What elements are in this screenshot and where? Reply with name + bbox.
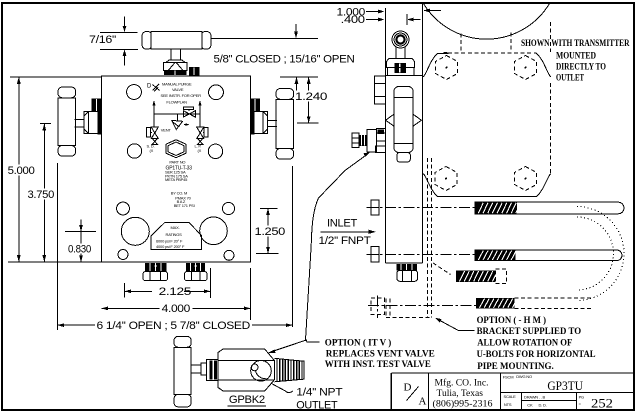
bottom threads black band	[396, 264, 417, 271]
centerline rotated U-bolt	[368, 305, 514, 307]
svg-text:META PBP45: META PBP45	[165, 177, 188, 182]
bracket foot dashed	[386, 299, 432, 318]
GPBK2 stem	[191, 365, 201, 373]
svg-text:FSCM: FSCM	[503, 375, 514, 380]
upper-left boss (outlet gland side view)	[375, 76, 386, 104]
ITV valve middle gland	[367, 129, 376, 152]
dim 1.240 block-top extension	[280, 76, 318, 78]
U-bolt rod 1	[475, 202, 624, 214]
schematic right riser	[199, 104, 201, 128]
down arrow on 5/8 line	[295, 24, 297, 32]
svg-text:VENT: VENT	[161, 128, 172, 133]
leader 1/4 NPT	[272, 384, 293, 393]
vent packing black nut	[394, 63, 406, 73]
flange bolt hexagon BL	[435, 167, 457, 191]
svg-text:RATINGS: RATINGS	[166, 232, 183, 237]
top valve tag (black)	[189, 67, 200, 75]
dim 1.240 line	[308, 77, 310, 123]
svg-text:REPLACES VENT VALVE: REPLACES VENT VALVE	[326, 349, 435, 359]
face bolt circles	[127, 85, 142, 100]
cell approvals	[522, 400, 577, 402]
vent handle ring (T-bar end view)	[392, 31, 409, 48]
svg-text:5.000: 5.000	[8, 165, 35, 177]
svg-text:SHOWN WITH TRANSMITTER: SHOWN WITH TRANSMITTER	[521, 39, 630, 49]
side body top and bottom edges	[385, 76, 422, 263]
dim .400 tick and arrow	[407, 14, 421, 25]
inner handle (side handle edge-on)	[394, 87, 413, 153]
svg-text:BRACKET SUPPLIED TO: BRACKET SUPPLIED TO	[477, 327, 581, 337]
GPBK2 handle	[174, 336, 191, 407]
svg-text:1/2'' FNPT: 1/2'' FNPT	[319, 235, 372, 247]
rotation dotted arc inner	[577, 217, 614, 290]
dim 1.000 right arrow at face	[428, 10, 441, 12]
bottom right outlet fitting threads	[186, 263, 205, 272]
dim line 5/8 closed	[212, 37, 319, 39]
left handle	[58, 87, 76, 156]
main valve (bowtie)	[183, 111, 195, 117]
flange outline scalloped	[423, 53, 448, 77]
dim 6 1/4 extension lines	[58, 163, 293, 330]
pivot cross vertical	[377, 296, 379, 319]
dim 4.000 line	[102, 307, 251, 309]
svg-text:1/4'' NPT: 1/4'' NPT	[296, 386, 343, 398]
hex plug double hexagon	[166, 140, 186, 158]
GPBK2 gland	[201, 363, 207, 375]
svg-text:2.125: 2.125	[159, 286, 192, 298]
svg-text:VALVE: VALVE	[172, 87, 184, 92]
top valve locknut black band	[164, 71, 186, 76]
ITV step below	[376, 146, 386, 152]
side body right face line full	[422, 3, 424, 263]
ITV valve threads black	[359, 135, 367, 146]
svg-text:BET 171 PSI: BET 171 PSI	[174, 203, 195, 208]
svg-text:PIPE MOUNTING.: PIPE MOUNTING.	[477, 362, 554, 372]
svg-text:Tulia, Texas: Tulia, Texas	[437, 389, 484, 399]
U-bolt rod 2	[475, 250, 622, 261]
top extension line	[10, 76, 102, 78]
dim 0.830 line	[80, 220, 82, 263]
svg-text:6000 psi F 20° F: 6000 psi F 20° F	[156, 239, 183, 244]
right branch valve handle	[204, 128, 208, 138]
bracket block dashed end	[495, 269, 506, 284]
svg-text:GPBK2: GPBK2	[229, 394, 265, 406]
vent base plate	[388, 68, 415, 76]
top valve stem	[171, 49, 181, 60]
dim 7/16 extension lines	[100, 32, 138, 49]
inlet tab upper	[371, 200, 379, 215]
flange bolt hexagon TR	[515, 56, 537, 80]
right valve tag (black)	[250, 99, 260, 112]
dim 3.750 line	[43, 124, 45, 263]
left valve tag (black)	[92, 99, 102, 112]
dim 4.000 extension line right	[250, 268, 252, 320]
svg-text:D: D	[404, 382, 412, 394]
svg-text:PG: PG	[579, 394, 584, 399]
bottom extension line	[8, 261, 102, 263]
right bonnet black strip	[251, 111, 255, 135]
svg-text:0.830: 0.830	[68, 243, 91, 255]
ITV valve end cap hex	[352, 133, 359, 147]
svg-text:U-BOLTS FOR HORIZONTAL: U-BOLTS FOR HORIZONTAL	[477, 350, 596, 360]
svg-text:PART NO: PART NO	[169, 160, 185, 165]
svg-text:5/8'' CLOSED ; 15/16'' OPEN: 5/8'' CLOSED ; 15/16'' OPEN	[214, 53, 355, 65]
flange bolt hexagon BR	[515, 167, 537, 191]
svg-text:FLOWPLAN: FLOWPLAN	[166, 100, 187, 105]
rotated rod dashed outline	[515, 298, 592, 308]
vent packing gland	[387, 58, 415, 67]
svg-text:ALLOW ROTATION OF: ALLOW ROTATION OF	[477, 339, 572, 349]
flange right dashed edge	[550, 22, 552, 174]
flange top edge black dash	[444, 52, 448, 54]
svg-text:4000 psi F 200° F: 4000 psi F 200° F	[156, 244, 185, 249]
svg-text:D: D	[147, 84, 152, 90]
svg-text:NTS: NTS	[504, 402, 512, 407]
flange bolt hexagon TL	[436, 56, 458, 80]
bottom right outlet nut	[185, 272, 208, 281]
dim 6 1/4 line segments	[58, 324, 293, 326]
transmitter neck dashed	[461, 33, 511, 54]
main valve handle	[183, 107, 193, 110]
rotated rod hatched	[476, 298, 515, 308]
right handle	[276, 89, 294, 160]
lower stem piece	[397, 153, 411, 163]
purge triangle	[172, 120, 183, 129]
svg-text:DWG NO: DWG NO	[516, 374, 532, 379]
svg-text:WITH INST. TEST VALVE: WITH INST. TEST VALVE	[325, 360, 431, 370]
centerline inlet lower	[367, 254, 621, 256]
schematic branch to purge	[177, 114, 179, 121]
right section divider	[500, 392, 634, 394]
right valve stem	[268, 121, 278, 127]
bottom left outlet fitting threads	[145, 263, 167, 272]
rotation dotted arc outer	[577, 207, 624, 301]
manifold block body	[102, 76, 251, 262]
svg-text:DRAWN . . B: DRAWN . . B	[524, 394, 546, 399]
dim 7/16 arrows	[124, 16, 126, 65]
svg-text:GP3TU: GP3TU	[547, 378, 583, 393]
ratings tag trapezoid	[151, 222, 202, 249]
bottom hex nut	[397, 270, 418, 281]
svg-text:1.240: 1.240	[295, 91, 327, 103]
svg-text:OPTION ( IT V ): OPTION ( IT V )	[325, 338, 392, 349]
left bonnet black strip	[97, 111, 101, 135]
transmitter housing arc	[423, 3, 550, 39]
flange top dashed edge	[448, 52, 537, 54]
dim 3.750 tick	[40, 123, 51, 125]
GPBK2 NPT threads	[274, 358, 303, 382]
bottom row dividers	[522, 393, 577, 411]
GPBK2 body	[218, 349, 274, 391]
svg-text:6 1/4'' OPEN ; 5 7/8'' CLOSED: 6 1/4'' OPEN ; 5 7/8'' CLOSED	[97, 320, 251, 332]
svg-text:OPTION ( - H M ): OPTION ( - H M )	[477, 315, 546, 326]
svg-text:OUTLET: OUTLET	[556, 74, 584, 84]
left branch valve (vertical bowtie)	[151, 127, 158, 138]
right drain valve small	[198, 138, 203, 144]
top valve packing nut	[164, 60, 188, 71]
leader ITV polyline	[306, 155, 368, 342]
dim 2.125 extension lines	[125, 268, 211, 298]
rod 2 threads hatched	[475, 250, 516, 261]
dim 0.830 tick	[65, 230, 96, 232]
centerline inlet upper	[367, 206, 621, 208]
svg-text:INLET: INLET	[327, 218, 358, 230]
bracket plate dashed verticals	[427, 158, 431, 318]
schematic main line	[154, 113, 200, 115]
svg-text:A: A	[419, 396, 427, 408]
big port circles	[121, 217, 149, 245]
svg-text:MANUAL PURGE: MANUAL PURGE	[162, 82, 192, 87]
top T-handle bar	[142, 32, 211, 50]
svg-text:3.750: 3.750	[28, 189, 55, 201]
title block outline	[391, 373, 634, 410]
schematic left riser	[153, 104, 155, 128]
dim 1.240 short arrow line	[296, 77, 298, 92]
svg-text:(806)995-2316: (806)995-2316	[433, 399, 493, 410]
diagonal dashed link	[433, 263, 451, 275]
ITV valve plate	[376, 129, 385, 147]
svg-text:(X: (X	[198, 148, 202, 153]
pivot dashed square	[371, 298, 384, 314]
GPBK2 port circle	[251, 361, 272, 382]
svg-text:OUTLET: OUTLET	[296, 400, 338, 412]
left valve stem	[75, 119, 85, 127]
tiny bottom circles	[118, 250, 128, 260]
ITV valve black top bits	[378, 129, 384, 134]
left valve bonnet	[84, 112, 101, 134]
svg-text:SCALE: SCALE	[504, 394, 517, 399]
inlet tab lower	[371, 247, 379, 263]
bracket block hatched (floating)	[456, 271, 495, 283]
svg-text:(X: (X	[150, 148, 154, 153]
svg-text:7/16'': 7/16''	[89, 34, 116, 46]
dim 5.000 line	[18, 77, 20, 262]
svg-text:Mfg. CO. Inc.: Mfg. CO. Inc.	[435, 378, 489, 389]
bracket leader	[439, 320, 475, 331]
right branch valve (vertical bowtie)	[197, 127, 204, 138]
svg-text:D. D.: D. D.	[539, 403, 547, 408]
svg-text:252: 252	[591, 396, 613, 411]
handle diamond arrows	[386, 114, 422, 126]
leader OPTION to GPBK2	[272, 340, 307, 352]
INLET arrow	[321, 231, 372, 233]
vent valve stem	[396, 47, 405, 59]
left branch valve handle	[147, 128, 151, 138]
svg-text:SEE INSTR. FOR OPER: SEE INSTR. FOR OPER	[161, 93, 202, 98]
rod 1 threads hatched	[475, 202, 517, 214]
lower small circles	[117, 202, 130, 215]
svg-text:DIRECTLY TO: DIRECTLY TO	[556, 63, 606, 73]
svg-text:MAX.: MAX.	[171, 225, 180, 230]
dim 2.125 line	[125, 290, 211, 292]
svg-text:.400: .400	[341, 14, 365, 26]
bottom left outlet nut	[143, 272, 168, 281]
dim 1.250 ticks	[256, 209, 278, 254]
side body left edge + extension	[384, 8, 386, 263]
dim 1.250 line	[267, 209, 269, 254]
svg-text:1.250: 1.250	[255, 226, 286, 238]
svg-text:MOUNTED: MOUNTED	[556, 52, 596, 62]
right valve bonnet	[251, 112, 268, 134]
svg-text:4.000: 4.000	[162, 303, 191, 315]
left drain valve small	[152, 138, 157, 144]
svg-text:CK: CK	[527, 403, 533, 408]
